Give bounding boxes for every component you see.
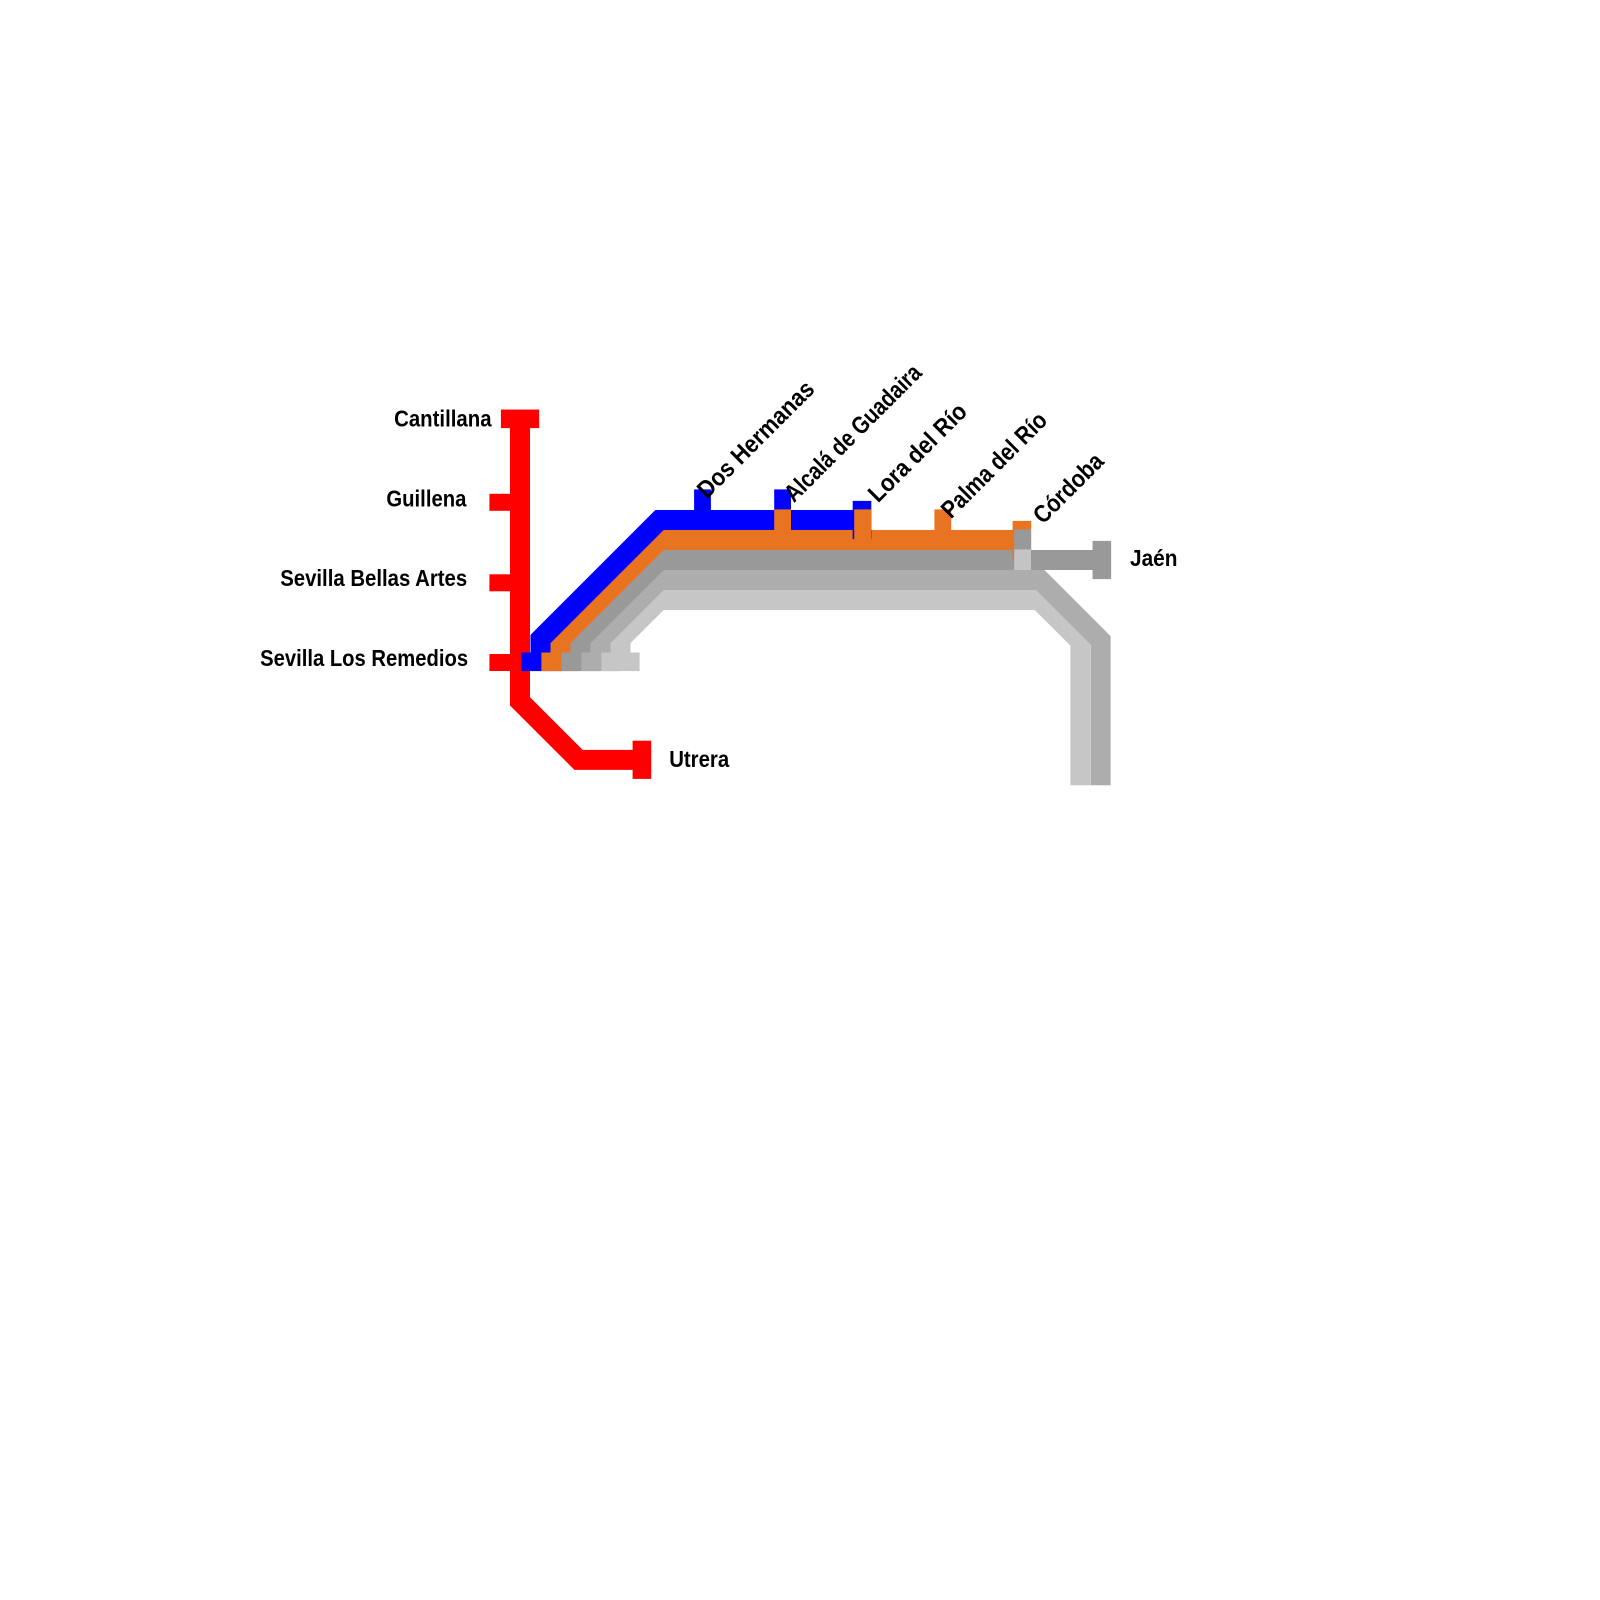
line orange: Sevilla Los Remedios to Cordoba	[561, 540, 1022, 662]
svg-text:Utrera: Utrera	[669, 746, 729, 772]
tick blue Dos Hermanas	[694, 489, 711, 530]
terminus cap g1 at Jaen	[1093, 541, 1112, 579]
terminus cap g3 at Sevilla Los Remedios	[601, 653, 639, 672]
terminus cap orange at Cordoba	[1013, 521, 1032, 559]
tick orange Alcala de Guadaira	[774, 509, 791, 550]
line g3 light gray: Sevilla Los Remedios to right descent	[621, 600, 1081, 785]
terminus cap orange at Sevilla Los Remedios	[541, 653, 579, 672]
svg-text:Sevilla Los Remedios: Sevilla Los Remedios	[260, 645, 468, 671]
tick orange Palma del Rio	[934, 509, 951, 550]
svg-text:Jaén: Jaén	[1130, 545, 1178, 571]
line red: Cantillana to Utrera	[520, 419, 642, 760]
line blue: Sevilla Los Remedios to Lora del Rio	[541, 520, 863, 662]
terminus cap g2 at Sevilla Los Remedios	[581, 653, 619, 672]
line g2 medium gray: Sevilla Los Remedios to right descent	[601, 580, 1101, 785]
tick blue Alcala de Guadaira	[774, 489, 791, 530]
terminus cap blue at Lora del Rio	[853, 501, 872, 539]
tick red Sevilla Los Remedios	[489, 654, 510, 671]
tick g1 Cordoba	[1014, 529, 1031, 570]
svg-text:Sevilla Bellas Artes: Sevilla Bellas Artes	[280, 565, 467, 591]
tick red Guillena	[489, 494, 510, 511]
line g1 dark gray: Sevilla Los Remedios to Jaen	[581, 560, 1102, 662]
tick g2 Cordoba	[1014, 549, 1031, 570]
terminus cap blue at Sevilla Los Remedios	[521, 653, 559, 672]
tick orange Lora del Rio	[854, 509, 871, 550]
svg-text:Cantillana: Cantillana	[394, 406, 492, 432]
terminus cap red at Utrera	[633, 741, 652, 779]
svg-text:Guillena: Guillena	[386, 485, 466, 511]
terminus cap g1 at Sevilla Los Remedios	[561, 653, 599, 672]
terminus cap red at Cantillana	[501, 410, 539, 429]
tick red Sevilla Bellas Artes	[489, 574, 510, 591]
